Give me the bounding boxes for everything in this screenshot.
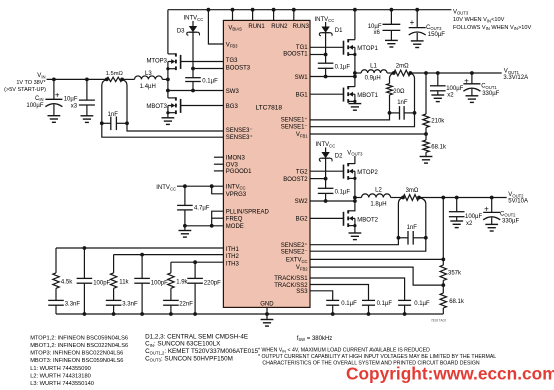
wire: BOOST1 pin line [310, 54, 326, 56]
svg-text:L2: WURTH 744313180: L2: WURTH 744313180 [30, 373, 91, 379]
svg-text:PLLIN/SPREAD: PLLIN/SPREAD [226, 209, 270, 215]
svg-text:D1: D1 [335, 28, 343, 34]
svg-text:SW1: SW1 [295, 75, 309, 81]
wire: RUN2 pin stub [272, 8, 276, 12]
svg-text:SW2: SW2 [295, 199, 309, 205]
wire: ITH1 pin line [56, 247, 223, 249]
wire: VFB2 line [310, 267, 443, 285]
svg-text:MBOT3: MBOT3 [146, 104, 167, 110]
svg-text:EXTVCC: EXTVCC [286, 258, 308, 264]
svg-text:VFB2: VFB2 [296, 265, 308, 271]
svg-text:ITH1: ITH1 [226, 247, 240, 253]
wire: VIN rail [47, 78, 107, 80]
svg-text:+: + [484, 205, 489, 214]
svg-text:MTOP3: INFINEON BSC022N04LS6: MTOP3: INFINEON BSC022N04LS6 [30, 351, 123, 357]
svg-text:150µF: 150µF [428, 32, 445, 38]
svg-text:MODE: MODE [226, 224, 244, 230]
svg-text:3.3nF: 3.3nF [122, 301, 138, 307]
wire: TG1 gate line [310, 46, 344, 48]
svg-text:68.1k: 68.1k [431, 145, 447, 151]
wire: MODE pin line tied to gnd node [185, 225, 224, 227]
wire: RUN3 pin stub [292, 8, 296, 12]
wire: BOOST2 pin line [310, 178, 326, 180]
svg-text:VOUT2: VOUT2 [508, 192, 524, 198]
svg-text:COUT1: COUT1 [481, 84, 497, 90]
svg-text:100µF: 100µF [26, 103, 43, 109]
svg-text:SENSE2⁻: SENSE2⁻ [281, 250, 308, 256]
svg-text:PGOOD1: PGOOD1 [226, 169, 252, 175]
svg-text:20Ω: 20Ω [393, 89, 405, 95]
svg-text:VOUT3: VOUT3 [347, 150, 363, 156]
svg-text:357k: 357k [448, 271, 462, 277]
wire: RUN1 pin stub [251, 8, 255, 12]
svg-text:1nF: 1nF [397, 100, 408, 106]
svg-text:MTOP1: MTOP1 [357, 46, 378, 52]
svg-text:SW3: SW3 [226, 89, 240, 95]
svg-text:VBIAS: VBIAS [228, 25, 242, 31]
svg-text:* OUTPUT CURRENT CAPABILITY AT: * OUTPUT CURRENT CAPABILITY AT HIGH INPU… [258, 354, 496, 360]
wire: SS3 line [310, 291, 333, 301]
wire: IMON3 open stub [214, 156, 224, 158]
svg-text:1.8µH: 1.8µH [370, 201, 386, 207]
svg-text:MTOP1,2: INFINEON BSC059N04LS6: MTOP1,2: INFINEON BSC059N04LS6 [30, 335, 128, 341]
wire: TRACK/SS2 line [310, 285, 369, 301]
wire: EXTVCC tie to VOUT2 [441, 196, 445, 200]
svg-text:RUN1: RUN1 [248, 24, 265, 30]
svg-text:0.1µF: 0.1µF [341, 301, 357, 307]
wire: MBOT3 source to ground [167, 113, 169, 118]
svg-text:COUT2: COUT2 [500, 211, 516, 217]
svg-text:0.1µF: 0.1µF [335, 64, 351, 70]
capacitor 10uF x3 [85, 78, 89, 82]
wire: SW1 node vertical [354, 55, 356, 87]
svg-text:5V/10A: 5V/10A [508, 199, 528, 205]
svg-text:L1: WURTH 744355090: L1: WURTH 744355090 [30, 366, 91, 372]
ground below 68.1k [420, 156, 433, 158]
ground below 10uF x6 [385, 39, 398, 41]
svg-text:100pF: 100pF [151, 280, 168, 286]
wire: MBOT2 source to ground [354, 226, 356, 233]
svg-text:VFB1: VFB1 [296, 132, 308, 138]
svg-text:MTOP3: MTOP3 [146, 58, 167, 64]
svg-text:SENSE3⁻: SENSE3⁻ [226, 128, 253, 134]
svg-text:1.5mΩ: 1.5mΩ [106, 71, 124, 77]
wire: SENSE1+ line [310, 113, 390, 120]
wire: SENSE2+ line [310, 238, 398, 245]
svg-text:FOLLOWS VIN WHEN VIN>10V: FOLLOWS VIN WHEN VIN>10V [453, 25, 531, 31]
svg-text:L1: L1 [370, 64, 377, 70]
wire: D2 cathode to BOOST2 node [325, 159, 327, 189]
wire: D1 cathode to BOOST1 node [325, 33, 327, 63]
ground below 100uF x2 ch2 [450, 220, 463, 222]
wire: MBOT1 source to ground [354, 101, 356, 103]
ground below COUT2 [485, 223, 498, 225]
wire: BG1 gate line [310, 93, 344, 95]
wire: GND pin to rail [266, 307, 268, 314]
wire: BOOST3 pin line [193, 68, 223, 70]
svg-text:fSW = 380kHz: fSW = 380kHz [297, 336, 333, 342]
wire: SW3 pin line [168, 90, 224, 92]
ground below 4.7uF [179, 230, 192, 232]
svg-text:+: + [55, 91, 60, 100]
wire: D3 cathode to BOOST3 node [192, 33, 194, 78]
svg-text:+: + [464, 76, 469, 85]
svg-text:1nF: 1nF [407, 225, 418, 231]
wire: VBIAS pin stub [231, 8, 235, 12]
svg-text:10V WHEN VIN<10V: 10V WHEN VIN<10V [453, 17, 505, 23]
svg-text:COUT3: COUT3 [426, 25, 442, 31]
svg-text:GND: GND [260, 301, 274, 307]
wire: SENSE1- line [310, 113, 415, 127]
svg-text:SS3: SS3 [296, 289, 308, 295]
svg-text:BG3: BG3 [226, 104, 239, 110]
svg-text:x6: x6 [373, 30, 380, 36]
wire: VOUT1 rail [410, 72, 501, 74]
wire: SW1 pin line [310, 76, 355, 78]
svg-text:D1,2,3: CENTRAL SEMI CMDSH-4E: D1,2,3: CENTRAL SEMI CMDSH-4E [145, 333, 248, 340]
svg-text:330µF: 330µF [502, 218, 519, 224]
svg-text:ITH3: ITH3 [226, 261, 240, 267]
svg-text:IMON3: IMON3 [226, 155, 246, 161]
svg-text:1.9k: 1.9k [176, 279, 188, 285]
svg-text:TRACK/SS2: TRACK/SS2 [274, 283, 308, 289]
capacitor CIN 100uF [52, 78, 56, 82]
wire: BG3 gate line [181, 105, 224, 107]
wire: INTVCC pin line [177, 185, 223, 187]
svg-text:VIN: VIN [37, 73, 45, 79]
wire: SENSE3- line [127, 123, 223, 131]
svg-text:MBOT1,2: INFINEON BSC022N04LS6: MBOT1,2: INFINEON BSC022N04LS6 [30, 343, 128, 349]
wire: TG2 gate line [310, 170, 344, 172]
ground below GND pin [266, 314, 268, 320]
wire: kelvin tap left of 1.5mOhm [102, 79, 107, 123]
wire: TG3 gate line [181, 61, 224, 63]
wire: ITH2 pin line [114, 254, 224, 256]
svg-text:Copyright:www.eccn.com: Copyright:www.eccn.com [346, 364, 554, 384]
wire: SENSE2- line [310, 238, 426, 251]
svg-text:CIN: CIN [35, 96, 44, 102]
wire: PLLIN/SPREAD + FREQ bracket [212, 211, 224, 226]
wire: kelvin tap right of 2mOhm [410, 73, 414, 113]
svg-text:220pF: 220pF [204, 280, 221, 286]
svg-text:BG2: BG2 [296, 217, 309, 223]
wire: MTOP3 drain to top rail [167, 10, 169, 54]
wire: kelvin tap left of 3mOhm [398, 198, 403, 238]
svg-text:MBOT2: MBOT2 [357, 217, 378, 223]
wire: L3 to SW3 node [162, 78, 168, 80]
svg-text:L3: WURTH 7443550140: L3: WURTH 7443550140 [30, 381, 94, 387]
svg-text:L2: L2 [375, 187, 382, 193]
svg-text:(>5V START-UP): (>5V START-UP) [4, 87, 46, 93]
wire: MTOP1 drain to top rail [354, 10, 356, 40]
svg-text:10µF: 10µF [64, 97, 78, 103]
svg-text:68.1k: 68.1k [449, 299, 465, 305]
svg-text:x3: x3 [71, 104, 78, 110]
svg-text:3.3nF: 3.3nF [65, 301, 81, 307]
svg-text:SENSE1⁺: SENSE1⁺ [281, 117, 308, 124]
svg-text:VFB3: VFB3 [226, 42, 238, 48]
svg-text:BOOST1: BOOST1 [283, 52, 308, 58]
wire: kelvin tap left of 2mOhm [390, 73, 394, 84]
wire: VPRG3 tie to INTVCC [212, 186, 224, 194]
svg-text:0.9µH: 0.9µH [365, 75, 381, 81]
svg-text:BG1: BG1 [296, 92, 309, 98]
ground below COUT3 [411, 40, 424, 42]
svg-text:CIN: SUNCON 63CE100LX: CIN: SUNCON 63CE100LX [145, 341, 221, 348]
svg-text:D3: D3 [177, 29, 185, 35]
svg-text:2mΩ: 2mΩ [396, 64, 409, 70]
svg-text:INTVCC: INTVCC [156, 185, 176, 191]
svg-text:0.1µF: 0.1µF [335, 189, 351, 195]
svg-text:VOUT1: VOUT1 [504, 69, 520, 75]
svg-text:LTC7818: LTC7818 [255, 105, 282, 112]
svg-text:100pF: 100pF [93, 280, 110, 286]
wire: OV3 open stub [214, 163, 224, 165]
ground below 10uF x3 [81, 115, 94, 117]
svg-text:ITH2: ITH2 [226, 254, 240, 260]
svg-text:+: + [410, 18, 415, 27]
svg-text:1.4µH: 1.4µH [140, 84, 156, 90]
node: VFB3 tie to rail [207, 8, 211, 12]
svg-text:TG2: TG2 [296, 169, 308, 175]
svg-text:TG1: TG1 [296, 45, 308, 51]
wire: bottom ground rail [56, 313, 443, 315]
svg-text:RUN3: RUN3 [293, 24, 310, 30]
svg-text:VPRG3: VPRG3 [226, 192, 247, 198]
wire: 1.5mOhm to L3 [122, 78, 134, 80]
svg-text:x2: x2 [447, 93, 454, 99]
svg-text:MTOP2: MTOP2 [357, 170, 378, 176]
op-amp U1: LTC7818 controller IC body [223, 20, 310, 307]
svg-text:7818 TA02: 7818 TA02 [431, 318, 447, 322]
wire: PGOOD1 open stub [214, 170, 224, 172]
svg-text:3.3V/12A: 3.3V/12A [503, 75, 528, 81]
wire: SW2 pin line [310, 200, 355, 202]
wire: kelvin tap right of 1.5mOhm [122, 79, 127, 123]
svg-text:100µF: 100µF [465, 214, 482, 220]
svg-text:INTVCC: INTVCC [226, 184, 246, 190]
svg-text:SENSE2⁺: SENSE2⁺ [281, 242, 308, 249]
svg-text:0.1µF: 0.1µF [377, 301, 393, 307]
svg-text:100µF: 100µF [446, 86, 463, 92]
ground below 100uF x2 [431, 94, 444, 96]
ground below CIN [48, 115, 61, 117]
svg-text:VOUT3: VOUT3 [453, 9, 469, 15]
svg-text:BOOST2: BOOST2 [283, 177, 308, 183]
svg-text:0.1µF: 0.1µF [414, 301, 430, 307]
svg-text:TG3: TG3 [226, 58, 238, 64]
svg-text:0.1µF: 0.1µF [202, 78, 218, 84]
svg-text:D2: D2 [335, 154, 343, 160]
svg-text:INTVCC: INTVCC [184, 16, 204, 22]
svg-text:1V TO 38V*: 1V TO 38V* [16, 80, 46, 86]
svg-text:BOOST3: BOOST3 [226, 66, 251, 72]
svg-text:4.7µF: 4.7µF [194, 206, 210, 212]
ground below MBOT2 [349, 232, 362, 234]
wire: BG2 gate line [310, 217, 344, 219]
svg-text:RUN2: RUN2 [271, 24, 288, 30]
wire: ITH3 pin line [171, 261, 224, 263]
svg-text:330µF: 330µF [482, 91, 499, 97]
svg-text:MBOT1: MBOT1 [357, 93, 378, 99]
ground below MBOT3 [162, 117, 175, 119]
svg-text:SENSE3⁺: SENSE3⁺ [226, 134, 253, 141]
ground below COUT1 [466, 95, 479, 97]
ground below MBOT1 [349, 103, 362, 105]
svg-text:210k: 210k [431, 118, 445, 124]
svg-text:FREQ: FREQ [226, 217, 243, 223]
svg-text:INTVCC: INTVCC [315, 17, 335, 23]
wire: VFB1 line [425, 128, 427, 141]
svg-text:3mΩ: 3mΩ [406, 188, 419, 194]
wire: VOUT3 top rail [168, 9, 452, 11]
svg-text:22nF: 22nF [179, 301, 193, 307]
svg-text:SENSE1⁻: SENSE1⁻ [281, 125, 308, 131]
svg-text:TRACK/SS1: TRACK/SS1 [274, 276, 308, 282]
wire: TRACK/SS1 line [310, 278, 405, 300]
svg-text:OV3: OV3 [226, 162, 239, 168]
svg-text:x2: x2 [466, 221, 473, 227]
svg-text:4.5k: 4.5k [61, 279, 73, 285]
svg-text:11k: 11k [119, 279, 129, 285]
svg-text:CHARACTERISTICS OF THE OVERALL: CHARACTERISTICS OF THE OVERALL SYSTEM AN… [262, 361, 479, 367]
wire: VOUT2 rail [419, 197, 507, 199]
svg-text:MBOT3: INFINEON BSC059N04LS6: MBOT3: INFINEON BSC059N04LS6 [30, 358, 123, 364]
wire: SW3 node vertical [167, 69, 169, 98]
wire: SENSE3+ line [102, 123, 224, 137]
wire: kelvin tap right of 3mOhm [419, 198, 426, 238]
wire: SW2 node vertical [354, 178, 356, 211]
